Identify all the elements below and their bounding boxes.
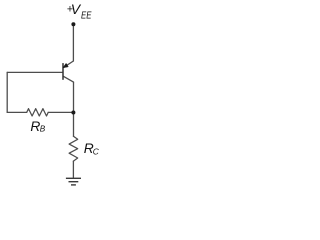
wire: RC bottom to ground	[72, 161, 74, 178]
node: VEE supply terminal dot	[71, 22, 75, 26]
svg-text:C: C	[93, 147, 100, 157]
transistor Q1 emitter arrowhead	[63, 63, 68, 68]
transistor Q1 base bar	[62, 63, 64, 80]
wire: VEE rail down to emitter corner	[72, 24, 74, 61]
wire: collector diagonal from base bar	[64, 76, 74, 82]
svg-text:B: B	[40, 125, 46, 134]
ground	[66, 178, 81, 185]
wire: bottom left to RB	[7, 111, 27, 113]
node: collector/RB junction dot	[71, 111, 75, 115]
wire: emitter diagonal into base bar	[64, 61, 74, 67]
resistor RC zigzag	[69, 136, 78, 161]
svg-text:EE: EE	[81, 11, 92, 22]
wire: base horizontal	[7, 71, 63, 73]
wire: RB to junction	[48, 111, 73, 113]
wire: collector rail down to junction and RC	[73, 82, 75, 136]
wire: left vertical	[6, 72, 8, 112]
resistor RB zigzag	[27, 109, 49, 116]
